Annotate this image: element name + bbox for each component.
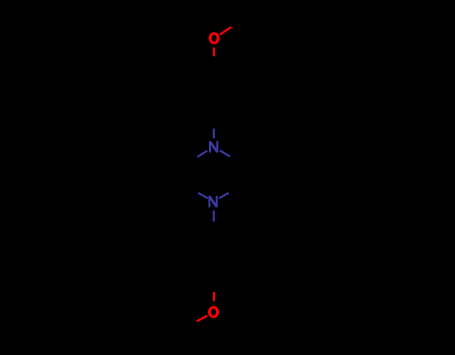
red bond group — [197, 27, 232, 321]
bond C-N2 upper-right (piperazine, blue half) — [219, 193, 228, 198]
bottom benzene double bonds — [194, 235, 233, 276]
atom O2 (bottom methoxy oxygen) — [208, 306, 219, 318]
bond N2-C1b (to bottom ring, blue half) — [213, 211, 215, 222]
bond O1-C1 (to top ring, red half) — [213, 47, 215, 56]
bond C4-N1 (ring to top N, blue half) — [213, 129, 215, 139]
bond C4b-O2 (from bottom ring, red half) — [213, 292, 215, 301]
bond N1-C left (piperazine, blue half) — [197, 151, 207, 157]
piperazine C-C side bonds — [190, 160, 237, 187]
invisible black skeleton (benzene rings + C halves of bonds), black on black — [190, 25, 238, 326]
top benzene double bonds — [195, 72, 234, 113]
black halves of hetero bonds — [190, 25, 238, 326]
top benzene ring — [191, 65, 238, 119]
bond C-N2 upper-left (piperazine, blue half) — [198, 193, 207, 198]
atom O1 (top methoxy oxygen) — [209, 32, 220, 44]
bond O2-CH3 (bottom methyl, red half) — [197, 316, 207, 322]
bond O1-CH3 (methyl, red half) — [220, 27, 232, 35]
atom N1 (top piperazine nitrogen) — [210, 141, 217, 152]
bond N1-C right (piperazine, blue half) — [220, 151, 230, 157]
blue bond group — [197, 129, 230, 222]
bottom benzene ring — [190, 228, 237, 282]
atom N2 (bottom piperazine nitrogen) — [209, 196, 216, 207]
